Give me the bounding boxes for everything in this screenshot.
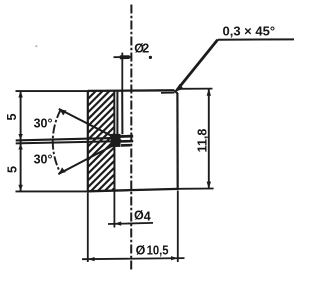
svg-text:4: 4 [144, 209, 151, 223]
svg-text:Ø: Ø [134, 209, 144, 223]
svg-text:30°: 30° [34, 116, 53, 130]
svg-text:Ø: Ø [136, 243, 146, 257]
svg-text:30°: 30° [34, 153, 53, 167]
svg-text:11,8: 11,8 [196, 129, 210, 153]
svg-text:0,3 × 45°: 0,3 × 45° [223, 24, 276, 39]
svg-text:10,5: 10,5 [147, 243, 169, 257]
svg-text:5: 5 [5, 166, 19, 173]
svg-text:5: 5 [5, 113, 19, 120]
svg-text:2: 2 [142, 42, 149, 56]
